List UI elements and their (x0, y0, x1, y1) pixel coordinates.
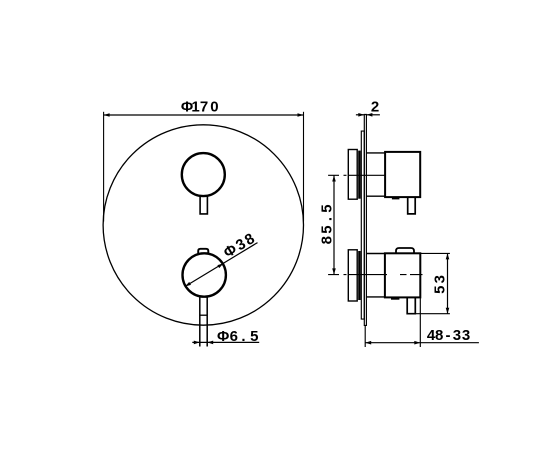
dim 2 arrow right (366, 113, 372, 117)
side view: bottom knob indicator tick (391, 297, 399, 299)
side view: top valve flange (358, 151, 361, 199)
dim D38 arrow lower-left (185, 282, 191, 287)
side view: trim plate 2mm (364, 115, 366, 326)
dim 53 arrow top (446, 253, 450, 259)
dim 53 bottom extension line (415, 313, 450, 315)
top thermostat knob circle (182, 153, 225, 196)
side view: bottom valve body (348, 250, 357, 301)
dim 48-33 arrow right (414, 341, 420, 345)
side view: rough-in plate (361, 131, 364, 319)
side view: bottom knob stem (407, 297, 415, 313)
side view: bottom centerline (328, 274, 422, 276)
dim 85.5 arrow top (332, 176, 336, 182)
lever stem joint line (200, 314, 207, 316)
side view: top knob neck (366, 153, 385, 196)
svg-text:Φ6.5: Φ6.5 (217, 328, 259, 345)
dim D170 extension line right (303, 112, 305, 222)
dim D6.5 dimension line (192, 341, 259, 343)
dim 85.5 dimension line (333, 176, 335, 275)
dim 53 top extension line (420, 252, 450, 254)
dim 48-33 left extension line (364, 325, 366, 347)
dim D170 arrow left (104, 113, 110, 117)
svg-text:53: 53 (431, 275, 448, 294)
dim D6.5 arrow right (207, 341, 213, 345)
svg-text:2: 2 (371, 98, 379, 115)
side view: bottom valve flange (358, 251, 361, 300)
dim D170 extension line left (103, 112, 105, 222)
side view: bottom knob right edge extension down (419, 297, 421, 347)
side view: top knob stem (408, 197, 416, 214)
dim D38 diagonal dimension line (185, 243, 258, 287)
svg-text:Φ38: Φ38 (221, 229, 260, 262)
dim 2 dimension line left part (356, 114, 364, 116)
side view: bottom knob neck (366, 254, 385, 297)
lower knob top tab (198, 249, 208, 254)
side view: bottom knob top tab (396, 248, 414, 253)
dim 2 dimension line right part (366, 114, 380, 116)
side view: top knob indicator tick (392, 197, 400, 199)
dim 85.5 arrow bottom (332, 268, 336, 274)
top knob stem (200, 197, 207, 214)
side view: top centerline (328, 174, 385, 176)
dim 53 arrow bottom (446, 308, 450, 314)
side view: top knob body rect (385, 152, 420, 197)
dim D38 arrow upper-right (217, 264, 223, 269)
svg-text:48-33: 48-33 (427, 327, 470, 344)
svg-text:Φ170: Φ170 (181, 98, 219, 115)
dim 48-33 dimension line (365, 342, 479, 344)
dim 53 dimension line (447, 253, 449, 313)
dim 2 arrow left (358, 113, 364, 117)
dim D6.5 arrow left (194, 341, 200, 345)
side view: top valve body (348, 150, 357, 200)
lower knob lever stem (200, 297, 207, 347)
dim 48-33 arrow left (365, 341, 371, 345)
lower volume knob circle D38 (183, 253, 226, 296)
svg-text:85.5: 85.5 (318, 204, 335, 244)
dim D170 dimension line (104, 114, 304, 116)
dim D170 arrow right (298, 113, 304, 117)
side view: bottom knob body rect (385, 253, 420, 297)
front escutcheon plate circle D170 (103, 125, 303, 325)
